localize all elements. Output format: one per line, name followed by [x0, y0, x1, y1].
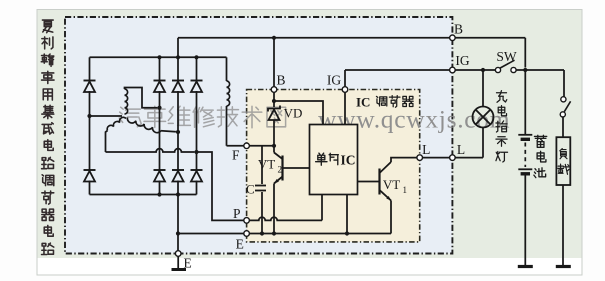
svg-text:1: 1	[403, 185, 408, 195]
svg-text:IG: IG	[455, 53, 469, 68]
svg-text:E: E	[184, 256, 192, 271]
svg-text:L: L	[457, 142, 465, 157]
svg-text:F: F	[232, 148, 240, 163]
svg-text:E: E	[236, 237, 244, 252]
svg-text:P: P	[233, 206, 241, 221]
svg-text:B: B	[276, 73, 285, 88]
svg-text:IC: IC	[356, 95, 370, 110]
svg-text:2: 2	[278, 165, 283, 175]
svg-text:L: L	[422, 142, 430, 157]
svg-text:VT: VT	[383, 177, 400, 192]
svg-text:IC: IC	[341, 152, 356, 167]
svg-text:C: C	[246, 182, 255, 197]
svg-text:B: B	[454, 22, 463, 37]
svg-text:VD: VD	[284, 106, 303, 121]
svg-text:IG: IG	[327, 73, 341, 88]
svg-text:VT: VT	[258, 157, 275, 172]
svg-text:SW: SW	[496, 49, 517, 64]
